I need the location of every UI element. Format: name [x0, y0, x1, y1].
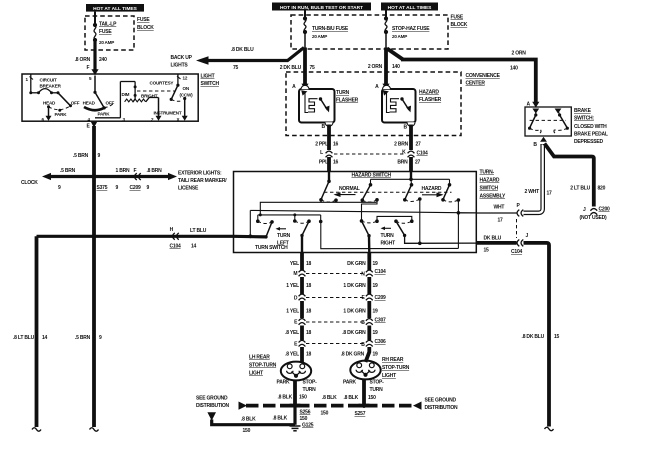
svg-text:.8 LT BLU: .8 LT BLU [13, 335, 35, 341]
DK GRN output stub [368, 236, 371, 253]
svg-text:TURN: TURN [277, 233, 291, 239]
svg-text:SWITCH: SWITCH [480, 186, 499, 192]
wire 2 PPL 16 flasher B to C104-L [315, 125, 338, 151]
svg-text:19: 19 [373, 330, 379, 336]
node E below light switch [87, 122, 98, 130]
fuse TURN-B/U 20A [303, 16, 349, 47]
svg-text:9: 9 [147, 185, 150, 191]
label TURN RIGHT with arrow [381, 227, 396, 247]
svg-text:DISTRIBUTION: DISTRIBUTION [196, 403, 230, 409]
svg-text:B: B [361, 320, 365, 326]
svg-text:B: B [361, 342, 365, 348]
svg-text:75: 75 [310, 65, 316, 71]
svg-text:2 DK BLU: 2 DK BLU [280, 65, 302, 71]
fuse STOP-HAZ 20A [384, 16, 430, 47]
svg-text:BLOCK: BLOCK [451, 22, 468, 28]
fuse block (ip) dashed box [291, 15, 448, 49]
svg-text:20 AMP: 20 AMP [392, 34, 407, 39]
svg-text:SEE GROUND: SEE GROUND [425, 398, 457, 404]
splice S256 [293, 403, 311, 415]
hazard switch contact 4 (WHT) [321, 179, 460, 248]
svg-text:HEAD: HEAD [83, 100, 96, 105]
svg-text:STOP-: STOP- [303, 380, 318, 386]
svg-text:150: 150 [299, 395, 307, 401]
svg-text:150: 150 [300, 416, 308, 422]
dashed link dim to courtesy [137, 90, 176, 92]
instrument dimmer rheostat [120, 82, 181, 121]
turn switch strip LC [258, 213, 321, 221]
svg-text:BACK UP: BACK UP [171, 55, 193, 61]
turn right dashed arcs [362, 221, 412, 223]
fuse block (tail lp) dashed box [85, 16, 134, 50]
wire banner to stop-haz fuse [385, 11, 387, 19]
wire .5 BRN 9 light switch to S375 [73, 126, 101, 177]
svg-text:A: A [292, 84, 296, 90]
wire pin4 along bottom to pin3 [95, 117, 120, 119]
svg-text:2 BRN: 2 BRN [394, 141, 409, 147]
turn flasher label [336, 90, 359, 104]
svg-text:CONVENIENCE: CONVENIENCE [466, 73, 501, 79]
svg-text:BRAKE PEDAL: BRAKE PEDAL [574, 132, 608, 138]
connector row E/B C307 [294, 318, 386, 327]
svg-text:140: 140 [392, 64, 400, 70]
svg-text:SWITCH:: SWITCH: [574, 116, 594, 122]
svg-text:TURN-: TURN- [480, 170, 495, 176]
wire 1 YEL 18 segment2 [286, 301, 311, 318]
svg-text:.8 ORN: .8 ORN [75, 57, 91, 63]
svg-text:.8 DK GRN: .8 DK GRN [341, 352, 365, 358]
svg-text:STOP-: STOP- [370, 380, 385, 386]
svg-text:.8 BLK: .8 BLK [277, 395, 292, 401]
svg-text:M: M [293, 271, 297, 277]
connector J (C104) [511, 233, 529, 255]
svg-text:19: 19 [373, 309, 379, 315]
svg-text:.5 BRN: .5 BRN [75, 335, 91, 341]
svg-text:.8 BRN: .8 BRN [147, 168, 163, 174]
svg-text:CIRCUIT: CIRCUIT [40, 77, 58, 82]
power label HOT AT ALL TIMES (tail lp) [86, 4, 144, 12]
svg-text:LH REAR: LH REAR [249, 355, 270, 361]
svg-text:1 DK GRN: 1 DK GRN [343, 283, 366, 289]
svg-text:PARK: PARK [55, 112, 68, 117]
connector row D/E C209 [294, 294, 386, 301]
svg-text:TURN: TURN [370, 387, 384, 393]
svg-text:TAIL/ REAR MARKER/: TAIL/ REAR MARKER/ [178, 178, 227, 184]
svg-text:TURN-B/U FUSE: TURN-B/U FUSE [312, 26, 349, 32]
svg-text:.5 BRN: .5 BRN [60, 168, 76, 174]
LH light label [249, 355, 277, 377]
wire WHT 17 to connector P [476, 205, 516, 224]
svg-text:BREAKER: BREAKER [40, 84, 62, 89]
label HAZARD with arrow [422, 186, 444, 197]
svg-text:HEAD: HEAD [43, 100, 56, 105]
svg-text:J: J [526, 233, 529, 239]
svg-text:ASSEMBLY: ASSEMBLY [480, 194, 506, 200]
svg-text:HAZARD: HAZARD [480, 178, 500, 184]
svg-text:B: B [404, 125, 408, 131]
svg-text:C306: C306 [375, 339, 387, 345]
svg-text:RH REAR: RH REAR [382, 357, 404, 363]
wire from banner to tail fuse [94, 12, 96, 25]
courtesy switch [150, 74, 194, 121]
DK BLU output path [405, 235, 477, 245]
svg-text:18: 18 [306, 330, 312, 336]
circuit breaker [29, 74, 61, 94]
svg-text:20 AMP: 20 AMP [99, 40, 114, 45]
svg-text:K: K [402, 149, 406, 155]
wire 2 BRN 27 hazard B to K [394, 125, 421, 151]
svg-text:LIGHT: LIGHT [201, 74, 215, 80]
svg-text:75: 75 [233, 65, 239, 71]
svg-text:RIGHT: RIGHT [381, 241, 396, 247]
svg-text:(CCW): (CCW) [180, 93, 194, 98]
wire 1 DK GRN 19 segment2 [343, 301, 378, 318]
svg-text:17: 17 [498, 218, 504, 224]
svg-text:150: 150 [243, 428, 251, 434]
svg-text:19: 19 [373, 261, 379, 267]
pin 1 [26, 77, 34, 83]
svg-text:27: 27 [416, 141, 422, 147]
dashed connector line P to J [516, 219, 518, 238]
svg-text:CLOCK: CLOCK [21, 180, 38, 186]
light switch label [201, 74, 220, 88]
wire 2 LT BLU 820 to C200 [545, 144, 606, 207]
ground G125 [290, 423, 314, 431]
svg-text:F: F [87, 65, 90, 71]
svg-text:FLASHER: FLASHER [419, 97, 442, 103]
WHT output stub [458, 212, 476, 214]
connector row M/N C104 [293, 269, 386, 278]
turn left dashed arcs [258, 221, 309, 224]
turn flasher U1 [292, 84, 334, 130]
svg-text:C104: C104 [511, 249, 523, 255]
svg-text:2 ORN: 2 ORN [512, 51, 527, 57]
convenience center label [466, 73, 501, 87]
turn switch feed strip LA [260, 202, 376, 215]
svg-text:HOT IN RUN, BULB TEST OR START: HOT IN RUN, BULB TEST OR START [280, 5, 363, 11]
hazard flasher label [419, 90, 442, 104]
svg-text:BRAKE: BRAKE [574, 108, 592, 114]
svg-text:9: 9 [58, 185, 61, 191]
svg-text:18: 18 [306, 261, 312, 267]
svg-text:S257: S257 [355, 411, 366, 417]
svg-text:COURTESY: COURTESY [150, 80, 174, 85]
dashed connector line L to K [334, 153, 404, 155]
wire 2 WHT 17 brake switch to P (double line) [524, 144, 553, 213]
svg-text:.8 YEL: .8 YEL [285, 352, 299, 358]
wire CLOCK feed .5 BRN 9 [21, 168, 177, 191]
svg-text:18: 18 [306, 309, 312, 315]
svg-text:PPL: PPL [319, 160, 328, 166]
svg-text:A: A [375, 84, 379, 90]
wire 1 DK GRN 19 segment [343, 277, 378, 294]
svg-text:CLOSED WITH: CLOSED WITH [574, 124, 607, 130]
label TURN LEFT with arrow [276, 227, 291, 246]
svg-text:PARK: PARK [343, 380, 357, 386]
connector K (C104) [402, 149, 428, 157]
svg-text:19: 19 [373, 283, 379, 289]
RH light label [382, 357, 410, 379]
label EXTERIOR LIGHTS [178, 171, 227, 192]
wire .8 ORN 240 to light switch [75, 40, 107, 75]
fuse block label [451, 15, 468, 29]
svg-text:27: 27 [415, 160, 421, 166]
svg-text:HAZARD: HAZARD [419, 90, 439, 96]
hazard flasher U2 [375, 84, 415, 131]
svg-text:L: L [320, 150, 323, 156]
svg-text:LIGHTS: LIGHTS [171, 63, 189, 69]
brake switch [525, 102, 571, 149]
svg-text:FUSE: FUSE [451, 15, 464, 21]
wire .5 BRN 9 down to bottom [75, 177, 102, 432]
svg-text:2 ORN: 2 ORN [368, 64, 383, 70]
svg-text:HAZARD SWITCH: HAZARD SWITCH [352, 172, 392, 178]
svg-text:STOP-TURN: STOP-TURN [249, 363, 277, 369]
svg-text:LIGHT: LIGHT [249, 371, 263, 377]
power label HOT IN RUN, BULB TEST OR START [272, 3, 371, 11]
label BACK UP LIGHTS [171, 55, 193, 69]
wire .8 DK GRN 19 segment [342, 326, 378, 341]
svg-text:9: 9 [99, 335, 102, 341]
connector row E/B C306 [294, 339, 386, 348]
svg-text:15: 15 [554, 334, 560, 340]
svg-text:SEE GROUND: SEE GROUND [196, 396, 228, 402]
wire .8 DK BLU 75 to back up lights [196, 47, 304, 71]
svg-text:B: B [322, 124, 326, 130]
wire 2 ORN 140 fuse to hazard flasher [368, 48, 400, 90]
svg-text:.8 DK BLU: .8 DK BLU [231, 47, 254, 53]
svg-text:H: H [170, 227, 174, 233]
wire DK GRN 19 segment [347, 253, 378, 270]
wire .8 BLK 150 LH lamp to S256 [277, 380, 307, 406]
svg-text:WHT: WHT [494, 205, 505, 211]
svg-text:15: 15 [484, 248, 490, 254]
svg-text:14: 14 [191, 244, 197, 250]
svg-text:140: 140 [510, 66, 518, 72]
svg-text:C104: C104 [417, 151, 429, 157]
svg-text:DIM: DIM [122, 92, 130, 97]
svg-text:HOT AT ALL TIMES: HOT AT ALL TIMES [388, 5, 433, 11]
fuse TAIL LP 20A [93, 21, 117, 45]
ground distribution bus [239, 395, 422, 417]
brake switch label [574, 108, 608, 145]
svg-text:TURN: TURN [303, 387, 317, 393]
svg-text:FLASHER: FLASHER [336, 98, 359, 104]
svg-text:HOT AT ALL TIMES: HOT AT ALL TIMES [93, 6, 138, 12]
svg-text:C307: C307 [375, 318, 387, 324]
svg-text:C104: C104 [170, 244, 182, 250]
svg-text:2 LT BLU: 2 LT BLU [570, 186, 590, 192]
LH lamp terminals labels [277, 380, 318, 394]
svg-text:150: 150 [368, 395, 376, 401]
svg-text:C209: C209 [130, 185, 142, 191]
svg-text:150: 150 [321, 411, 329, 417]
wire .8 BRN 9 to exterior lights [147, 168, 163, 191]
connector C209 on clock wire [130, 173, 142, 191]
svg-text:TURN: TURN [336, 90, 350, 96]
wire 1 BRN F [116, 168, 137, 191]
svg-text:820: 820 [598, 186, 606, 192]
connector L (C104) [320, 150, 332, 158]
label NORMAL with arrow [334, 186, 360, 197]
wire .8 DK GRN 19 to RH lamp [341, 347, 378, 362]
turn left switch arms [264, 221, 309, 238]
label see ground distribution right [425, 398, 459, 412]
svg-text:OFF: OFF [106, 100, 115, 105]
svg-text:DEPRESSED: DEPRESSED [574, 139, 603, 145]
svg-text:14: 14 [42, 335, 48, 341]
svg-text:C200: C200 [599, 207, 611, 213]
wire 1 YEL 18 segment [286, 277, 311, 294]
svg-text:.8 DK BLU: .8 DK BLU [522, 334, 545, 340]
wire .8 YEL 18 to LH lamp [285, 347, 311, 363]
svg-text:17: 17 [547, 191, 553, 197]
svg-text:S375: S375 [97, 185, 108, 191]
svg-text:PARK: PARK [98, 112, 111, 117]
svg-text:(NOT USED): (NOT USED) [580, 215, 608, 221]
svg-text:16: 16 [333, 160, 339, 166]
wire YEL 18 segment [290, 253, 312, 270]
svg-text:A: A [527, 102, 531, 108]
svg-text:C209: C209 [375, 295, 387, 301]
RH lamp terminals labels [343, 380, 384, 394]
ground lead-in from left [207, 412, 295, 434]
wire .8 DK BLU 15 down right side [522, 243, 560, 431]
svg-text:DK GRN: DK GRN [347, 261, 366, 267]
convenience center dashed box [286, 72, 461, 136]
svg-text:.8 BLK: .8 BLK [343, 395, 358, 401]
LT BLU bus inside box [234, 234, 267, 238]
svg-text:.5 BRN: .5 BRN [73, 153, 89, 159]
fuse block label [137, 17, 154, 31]
YEL output stub [301, 235, 303, 253]
svg-text:TURN: TURN [381, 233, 395, 239]
svg-text:N: N [361, 272, 365, 278]
svg-text:J: J [583, 207, 586, 213]
turn-hazard switch assembly label [480, 170, 506, 200]
svg-text:1 YEL: 1 YEL [286, 283, 299, 289]
turn-hazard switch assembly box [234, 172, 477, 253]
svg-text:16: 16 [333, 141, 339, 147]
hazard switch contact 2 [361, 179, 379, 221]
dashed hazard gang line [324, 191, 452, 193]
svg-text:1 DK GRN: 1 DK GRN [343, 309, 366, 315]
svg-text:G125: G125 [302, 423, 314, 429]
turn switch contact dots [256, 219, 414, 224]
wire .8 LT BLU 14 down left [13, 236, 48, 431]
turn switch feed strip LB (to WHT) [250, 210, 458, 212]
svg-text:OFF: OFF [71, 100, 80, 105]
svg-text:PARK: PARK [277, 380, 291, 386]
svg-text:LIGHT: LIGHT [382, 373, 396, 379]
label see ground distribution left [196, 396, 230, 410]
svg-text:EXTERIOR LIGHTS:: EXTERIOR LIGHTS: [178, 171, 222, 177]
svg-text:D: D [294, 296, 298, 302]
svg-text:.8 DK GRN: .8 DK GRN [342, 330, 366, 336]
svg-text:240: 240 [99, 57, 107, 63]
head/off/park switch 1 [43, 93, 80, 121]
svg-text:BLOCK: BLOCK [137, 25, 154, 31]
svg-text:.8 BLK: .8 BLK [322, 395, 337, 401]
head/off/park switch 2 [83, 76, 115, 117]
wire 150 S256 to G125 [295, 406, 308, 425]
svg-text:TAIL-LP: TAIL-LP [99, 21, 117, 27]
svg-text:ON: ON [183, 86, 190, 91]
svg-text:STOP-TURN: STOP-TURN [382, 365, 410, 371]
LB corner to LT BLU bus [249, 210, 251, 236]
connector P [517, 203, 524, 216]
svg-text:SWITCH: SWITCH [201, 81, 220, 87]
power label HOT AT ALL TIMES (stop-haz) [381, 3, 438, 11]
svg-text:S256: S256 [300, 410, 311, 416]
svg-text:12: 12 [183, 76, 188, 81]
wire BRN 27 to turn switch [397, 157, 420, 172]
wire .8 BLK 150 RH lamp to S257 [343, 379, 376, 406]
svg-text:YEL: YEL [290, 261, 299, 267]
svg-text:B: B [533, 142, 537, 148]
svg-text:LT BLU: LT BLU [190, 228, 207, 234]
svg-text:19: 19 [373, 352, 379, 358]
svg-text:DISTRIBUTION: DISTRIBUTION [425, 405, 459, 411]
svg-text:FUSE: FUSE [137, 17, 150, 23]
svg-text:18: 18 [306, 352, 312, 358]
hazard feed line from BRN [371, 172, 450, 181]
LH rear stop-turn light bulb [281, 362, 311, 381]
wire .8 YEL 18 segment [285, 326, 311, 341]
svg-text:LICENSE: LICENSE [178, 186, 199, 192]
svg-text:.8 BLK: .8 BLK [241, 417, 256, 423]
svg-text:FUSE: FUSE [99, 29, 112, 35]
wire banner to turn-b/u fuse [304, 11, 306, 19]
wire 2 DK BLU 75 fuse to turn flasher [280, 48, 315, 90]
svg-text:9: 9 [116, 185, 119, 191]
svg-text:1 BRN: 1 BRN [116, 168, 131, 174]
svg-text:STOP-HAZ FUSE: STOP-HAZ FUSE [392, 26, 430, 32]
RH rear stop-turn light bulb [350, 361, 380, 380]
svg-text:20 AMP: 20 AMP [312, 34, 327, 39]
wire DK BLU 15 to connector J [476, 236, 516, 254]
svg-text:C104: C104 [375, 269, 387, 275]
connector C200 (not used) [580, 207, 611, 222]
wire PPL 16 to turn switch [319, 157, 339, 172]
bridge contact strap [377, 216, 412, 221]
svg-text:2 WHT: 2 WHT [525, 189, 540, 195]
svg-text:.8 YEL: .8 YEL [285, 330, 299, 336]
wire LT BLU 14 to turn switch [37, 227, 234, 250]
svg-text:DK BLU: DK BLU [484, 236, 502, 242]
svg-text:.8 BLK: .8 BLK [273, 416, 288, 422]
svg-text:BRN: BRN [397, 160, 408, 166]
svg-text:1 YEL: 1 YEL [286, 309, 299, 315]
svg-text:18: 18 [306, 283, 312, 289]
turn right switch arms [362, 221, 407, 238]
svg-text:CENTER: CENTER [466, 81, 486, 87]
light switch box [22, 74, 198, 121]
splice S375 [92, 174, 108, 191]
splice S257 [355, 403, 367, 417]
svg-text:2 PPL: 2 PPL [315, 141, 328, 147]
svg-text:INSTRUMENT: INSTRUMENT [154, 111, 182, 116]
svg-text:HAZARD: HAZARD [422, 186, 442, 192]
svg-text:TURN SWITCH: TURN SWITCH [255, 245, 288, 251]
svg-text:NORMAL: NORMAL [339, 186, 360, 192]
wire 2 ORN 140 fuse to brake switch [387, 49, 539, 108]
hazard switch contact 3 [403, 179, 422, 243]
svg-text:9: 9 [98, 153, 101, 159]
hazard switch contact 1 (PPL) [319, 172, 338, 202]
